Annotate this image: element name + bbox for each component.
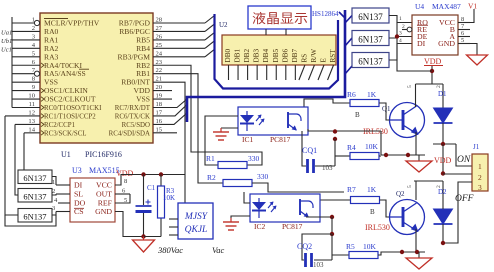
- svg-text:CQ1: CQ1: [302, 146, 317, 155]
- wire RB0/INT down: [153, 82, 185, 203]
- svg-text:2: 2: [478, 173, 482, 182]
- svg-text:6N137: 6N137: [358, 56, 383, 66]
- U3 reference labels: [72, 166, 120, 175]
- wire R7 to Q2 base: [380, 200, 390, 217]
- svg-text:Ub1: Ub1: [1, 38, 12, 45]
- connector J1 body: [472, 154, 488, 191]
- svg-text:10K: 10K: [363, 242, 377, 251]
- wire IC2 emitter rail: [306, 215, 334, 236]
- wire Q1 collector: [415, 104, 417, 107]
- U3 REF wire: [115, 194, 130, 204]
- label J1: [473, 143, 480, 151]
- label D2: [438, 188, 447, 196]
- svg-text:4: 4: [399, 38, 402, 44]
- svg-text:DB7: DB7: [291, 49, 299, 63]
- label R4 value 10K: [365, 142, 379, 151]
- left feed wire B: [15, 124, 18, 195]
- svg-text:RC7/RX/DT: RC7/RX/DT: [115, 105, 151, 112]
- svg-text:10K: 10K: [163, 194, 175, 202]
- pin annotation 2 rotated Q2: [436, 185, 442, 188]
- svg-text:OSC2/CLKOUT: OSC2/CLKOUT: [44, 95, 96, 104]
- optocoupler O3 6N137 body: [352, 53, 389, 68]
- U3 left pin wires: [56, 185, 70, 212]
- label Q1: [382, 105, 391, 113]
- svg-text:5: 5: [461, 37, 464, 44]
- wire OB3 to U3 CS: [52, 212, 56, 216]
- svg-text:U3: U3: [72, 166, 82, 175]
- label R1: [206, 154, 215, 163]
- wire OB1 to U3 DI: [52, 177, 56, 186]
- wire opto1 to U4 RO: [389, 16, 412, 23]
- svg-text:Ua1: Ua1: [1, 29, 12, 36]
- label R5 value 10K: [363, 242, 377, 251]
- wire C1 column: [141, 175, 145, 239]
- svg-text:QKJL: QKJL: [185, 225, 208, 235]
- svg-text:CQ2: CQ2: [297, 242, 312, 251]
- power ground U3: [133, 237, 155, 253]
- U2 pin labels DB0-RST: [224, 49, 337, 63]
- svg-text:OUT: OUT: [96, 190, 112, 199]
- wire IC1 emitter rail: [308, 129, 381, 155]
- svg-text:IC2: IC2: [254, 222, 266, 231]
- U1 left pin wires with pin numbers 1-14: [5, 17, 40, 134]
- power ground Q2: [406, 258, 432, 269]
- wires from RB7-RB3 to U2 connector: [153, 16, 215, 57]
- junction U4 input column: [395, 23, 399, 61]
- wire VDD node to J1 pin2: [441, 144, 472, 176]
- svg-text:R4: R4: [347, 143, 356, 152]
- svg-text:DB1: DB1: [234, 49, 242, 63]
- transistor Q1 IRL530: [390, 103, 425, 138]
- resistor R2 body: [223, 180, 252, 187]
- svg-text:6N137: 6N137: [23, 211, 46, 221]
- label R5: [346, 242, 355, 251]
- left feed wire A: [23, 133, 25, 170]
- svg-text:RC1/T1OSI/CCP2: RC1/T1OSI/CCP2: [44, 113, 96, 120]
- svg-text:液晶显示: 液晶显示: [252, 11, 308, 26]
- svg-text:R1: R1: [206, 154, 215, 163]
- svg-text:IC1: IC1: [242, 135, 254, 144]
- svg-text:R5: R5: [346, 242, 355, 251]
- power label V1: [468, 2, 477, 11]
- U4 right pin wires with numbers 8-5: [458, 16, 470, 44]
- earth ground IC2: [223, 218, 239, 230]
- wire IC1 anode left: [205, 116, 238, 165]
- U1 pin name labels: [44, 19, 151, 138]
- svg-text:VDD: VDD: [434, 156, 452, 165]
- wire R5 to emitter rail: [378, 252, 425, 255]
- wire IC2 collector to R7: [306, 199, 350, 201]
- U2 reference label: [219, 21, 228, 29]
- capacitor C1: [136, 200, 152, 212]
- wire opto2 to U4 DE: [389, 37, 412, 39]
- label ON: [457, 155, 471, 165]
- optocoupler OB2 6N137 body: [18, 189, 52, 203]
- svg-text:RC6/TX/CK: RC6/TX/CK: [115, 113, 150, 120]
- U3 GND wire: [115, 212, 144, 237]
- svg-text:GND: GND: [438, 39, 455, 48]
- label CQ1: [302, 146, 317, 155]
- wire OB2 to U3 SL: [52, 194, 56, 195]
- label R6 value 1K: [367, 90, 377, 99]
- svg-text:103: 103: [322, 164, 333, 172]
- diode D1: [434, 108, 453, 144]
- optocoupler O2 6N137 body: [352, 31, 389, 46]
- svg-text:12: 12: [28, 109, 35, 116]
- U3 OUT wire: [115, 188, 130, 195]
- label R7 value 1K: [367, 185, 377, 194]
- U1 right pin numbers 28-15: [156, 17, 163, 134]
- wire R4 to emitter rail: [379, 155, 425, 156]
- svg-text:5: 5: [407, 185, 413, 188]
- svg-text:8: 8: [461, 16, 464, 23]
- label U3 VDD: [116, 169, 134, 178]
- label VDD mid: [434, 156, 452, 165]
- svg-text:2: 2: [436, 85, 442, 88]
- optocoupler IC2 PC817: [250, 194, 320, 222]
- wire R6 to Q1 base: [379, 103, 390, 120]
- wire IC1 collector to R6: [304, 99, 350, 107]
- svg-text:5: 5: [407, 85, 413, 88]
- J1 pin 2: [478, 173, 482, 182]
- svg-text:DB4: DB4: [262, 49, 270, 63]
- label IRL530 Q1: [363, 127, 388, 136]
- svg-text:GND: GND: [95, 207, 112, 216]
- pin annotation 2 rotated: [436, 85, 442, 88]
- svg-text:J1: J1: [473, 143, 480, 151]
- label R3: [166, 187, 175, 195]
- junction dots VDD rail: [141, 172, 163, 176]
- svg-text:RC2/CCP1: RC2/CCP1: [44, 122, 76, 129]
- svg-text:103: 103: [313, 261, 324, 269]
- wire DI column to VDD rail: [397, 60, 432, 71]
- svg-text:V1: V1: [468, 2, 477, 11]
- svg-text:DB2: DB2: [243, 49, 251, 63]
- wire ON link J1 pin1: [456, 144, 472, 166]
- label R3 value 10K: [163, 194, 175, 202]
- svg-text:10: 10: [28, 93, 35, 100]
- svg-text:1K: 1K: [367, 90, 377, 99]
- MJSY text: [184, 212, 209, 235]
- label IRL530 Q2: [365, 223, 390, 232]
- U1 input pin arrows: [41, 63, 44, 135]
- svg-text:RS: RS: [300, 54, 308, 63]
- resistor R4 body: [350, 153, 379, 160]
- label B Q1 base: [355, 111, 360, 119]
- bus tap to opto2: [345, 38, 352, 46]
- power ground under U4 GND: [467, 55, 488, 65]
- label CQ1 value 103: [322, 164, 333, 172]
- wire ground stem Q1: [418, 155, 420, 161]
- svg-text:R6: R6: [347, 90, 356, 99]
- optocoupler OB1 6N137 body: [18, 170, 52, 184]
- serial bus thick wire: [187, 10, 345, 122]
- label HS12864: [312, 10, 339, 18]
- U2 pin stubs: [229, 65, 334, 80]
- svg-text:6N137: 6N137: [23, 191, 46, 201]
- optocoupler IC1 PC817: [238, 107, 308, 135]
- wire R3 column: [144, 175, 162, 237]
- resistor R3 body: [158, 186, 165, 218]
- wire LCD to header A: [265, 29, 267, 35]
- wire ground stem Q2: [418, 252, 420, 258]
- U4 RE inversion circle: [402, 24, 412, 32]
- U4 pin name labels: [417, 18, 455, 48]
- svg-text:C1: C1: [147, 184, 156, 192]
- LCD label 液晶显示: [252, 11, 308, 26]
- svg-text:Q2: Q2: [396, 190, 405, 198]
- bus tap to opto3: [345, 66, 352, 74]
- wire Q1 emitter: [415, 132, 417, 155]
- svg-text:Vac: Vac: [212, 245, 225, 255]
- svg-text:DI: DI: [417, 39, 426, 48]
- U4 VDD label: [424, 57, 443, 66]
- pin7 inversion circle: [34, 71, 39, 76]
- svg-text:DB5: DB5: [272, 49, 280, 63]
- U1 reference label: [61, 150, 122, 159]
- svg-text:DB3: DB3: [253, 49, 261, 63]
- svg-text:VDD: VDD: [424, 57, 442, 66]
- node Ub1: [1, 38, 12, 45]
- svg-text:PIC16F916: PIC16F916: [85, 150, 122, 159]
- MJSY left pins: [169, 219, 178, 235]
- J1 pin 1: [478, 162, 482, 171]
- bus tap to HS12864: [339, 12, 345, 18]
- svg-text:11: 11: [29, 101, 35, 108]
- svg-text:3: 3: [399, 31, 402, 37]
- wire Q2 collector rail: [414, 181, 443, 200]
- U2 connector bus outline: [215, 14, 339, 89]
- power ground Q1: [406, 161, 432, 172]
- node Ua1: [1, 29, 12, 36]
- left feed wire C: [5, 116, 18, 215]
- pin1 inversion circle: [34, 20, 39, 25]
- junction dots emitter rail Q1: [384, 153, 410, 157]
- svg-text:RC4/SDI/SDA: RC4/SDI/SDA: [109, 130, 150, 137]
- left feed wire D: [5, 215, 56, 226]
- label R7: [347, 185, 356, 194]
- svg-text:2: 2: [402, 24, 405, 30]
- svg-text:6N137: 6N137: [358, 34, 383, 44]
- label OFF: [455, 194, 474, 204]
- label IC1: [242, 135, 291, 144]
- wire RC5 to bus: [153, 113, 187, 124]
- label C1: [147, 184, 156, 192]
- svg-text:E: E: [320, 58, 328, 63]
- optocoupler OB3 6N137 body: [18, 209, 52, 223]
- svg-text:RC0/T1OSO/T1CKI: RC0/T1OSO/T1CKI: [44, 105, 102, 112]
- wire RB1 to R2: [153, 74, 223, 183]
- svg-text:3: 3: [478, 183, 482, 192]
- U3 pin name labels: [74, 181, 113, 217]
- svg-text:IRL530: IRL530: [365, 223, 390, 232]
- svg-text:R7: R7: [347, 185, 356, 194]
- J1 pin 3: [478, 183, 482, 192]
- diode D2: [434, 195, 453, 243]
- U4 reference labels: [415, 2, 461, 11]
- RS-485 transceiver U4 MAX487 body: [412, 15, 458, 55]
- power module MJSY body: [178, 203, 213, 239]
- svg-text:U1: U1: [61, 150, 71, 159]
- U3 VCC wire to VDD rail: [115, 175, 185, 186]
- wire R2 right run: [252, 183, 344, 192]
- svg-text:D2: D2: [438, 188, 447, 196]
- resistor R6 body: [350, 100, 379, 107]
- pin annotation 5 rotated Q2: [407, 185, 413, 188]
- svg-text:6: 6: [461, 30, 464, 37]
- svg-text:13: 13: [28, 118, 35, 125]
- label B Q2 base: [370, 208, 375, 216]
- wire RC4 pin15: [153, 132, 177, 134]
- label R4: [347, 143, 356, 152]
- wire LCD to header B: [285, 29, 287, 35]
- svg-text:2: 2: [32, 25, 35, 32]
- label R2 value 330: [257, 172, 269, 181]
- wire RC7/RX to bus: [153, 99, 187, 108]
- wire IC1 cathode to ground: [221, 127, 238, 129]
- wire IC2 anode left: [244, 192, 250, 203]
- svg-text:D1: D1: [438, 90, 447, 98]
- svg-text:MAX487: MAX487: [432, 2, 461, 11]
- svg-text:PC817: PC817: [270, 135, 291, 144]
- svg-text:VCC: VCC: [96, 181, 112, 190]
- svg-text:U2: U2: [219, 21, 228, 29]
- svg-text:10K: 10K: [365, 142, 379, 151]
- resistor R7 body: [351, 197, 380, 204]
- svg-text:Uc1: Uc1: [1, 46, 12, 53]
- wire CQ1 branch: [302, 131, 335, 166]
- svg-text:1: 1: [399, 16, 402, 22]
- svg-text:RC3/SCK/SCL: RC3/SCK/SCL: [44, 130, 87, 137]
- label D1: [438, 90, 447, 98]
- wire VSS pin19: [153, 98, 172, 100]
- svg-text:MJSY: MJSY: [184, 212, 209, 222]
- wire RC6/TX to bus: [153, 105, 187, 116]
- node Uc1: [1, 46, 12, 53]
- label R1 value 330: [248, 154, 260, 163]
- label CQ2 value 103: [313, 261, 324, 269]
- bus tap to opto1: [345, 16, 352, 24]
- wire VDD pin20: [153, 90, 172, 92]
- svg-text:U4: U4: [415, 2, 424, 11]
- optocoupler O1 6N137 body: [352, 8, 389, 23]
- wire Q2 emitter: [415, 229, 417, 252]
- wire U4 VDD column: [430, 66, 434, 84]
- DAC U3 MAX515 body: [70, 178, 115, 222]
- junction dots rail1: [333, 129, 337, 141]
- svg-text:14: 14: [28, 126, 35, 133]
- svg-text:B: B: [370, 208, 375, 216]
- capacitor CQ2: [306, 253, 312, 267]
- svg-text:380Vac: 380Vac: [157, 245, 183, 255]
- wire D2 bottom to J1 pin3: [441, 182, 472, 245]
- wire opto3 to U4 DI: [389, 44, 412, 61]
- svg-text:6N137: 6N137: [23, 173, 46, 183]
- VDD rail to Q1 and D1: [416, 84, 444, 108]
- transistor Q2 IRL530: [390, 200, 425, 235]
- label R2: [207, 173, 216, 182]
- svg-text:DI: DI: [74, 181, 83, 190]
- svg-text:330: 330: [257, 172, 269, 181]
- svg-text:VDD: VDD: [116, 169, 134, 178]
- U4 pin4 number: [399, 38, 402, 44]
- left vertical bus wire: [11, 17, 13, 108]
- svg-text:1: 1: [478, 162, 482, 171]
- svg-text:ON: ON: [457, 155, 471, 165]
- svg-text:R2: R2: [207, 173, 216, 182]
- capacitor CQ1: [308, 159, 314, 173]
- U3 pin8 number: [124, 178, 128, 185]
- U4 pin1 number: [399, 16, 402, 22]
- wire R5 left: [332, 254, 349, 256]
- label Vac: [212, 245, 225, 255]
- label Q2: [396, 190, 405, 198]
- wire GND to ground: [470, 44, 477, 56]
- wire D1 bottom rail: [433, 142, 456, 146]
- svg-text:330: 330: [248, 154, 260, 163]
- LCD module box: [248, 6, 311, 29]
- earth ground IC1: [213, 128, 229, 140]
- svg-text:B: B: [355, 111, 360, 119]
- U3 left pin numbers: [52, 179, 58, 212]
- wire VCC to V1: [470, 9, 474, 23]
- svg-text:PC817: PC817: [282, 222, 303, 231]
- svg-text:HS12864: HS12864: [312, 10, 339, 18]
- wire R4 left: [335, 155, 350, 157]
- svg-text:DB0: DB0: [224, 49, 232, 63]
- svg-text:R/W: R/W: [310, 49, 318, 63]
- svg-text:RST: RST: [329, 49, 337, 63]
- resistor R1 body: [218, 162, 247, 169]
- U2 pin header body: [222, 35, 336, 65]
- wire CQ2 branch: [302, 234, 332, 260]
- label IC2: [254, 222, 303, 231]
- svg-text:6N137: 6N137: [358, 12, 383, 22]
- microcontroller U1 PIC16F916 body: [40, 13, 153, 143]
- U4 pin3 number: [399, 31, 402, 37]
- pin annotation 5 rotated: [407, 85, 413, 88]
- svg-text:SL: SL: [74, 190, 83, 199]
- svg-text:RC5/SDO: RC5/SDO: [122, 122, 150, 129]
- wire IC2 cathode to ground: [231, 216, 250, 218]
- wire RB2 to R1 right: [153, 65, 262, 165]
- svg-text:VSS: VSS: [136, 95, 150, 104]
- resistor R5 body: [349, 252, 378, 259]
- svg-text:DB6: DB6: [281, 49, 289, 63]
- junction dots emitter rail Q2: [400, 250, 419, 254]
- label 380Vac: [157, 245, 183, 255]
- svg-text:1K: 1K: [367, 185, 377, 194]
- label R6: [347, 90, 356, 99]
- label CQ2: [297, 242, 312, 251]
